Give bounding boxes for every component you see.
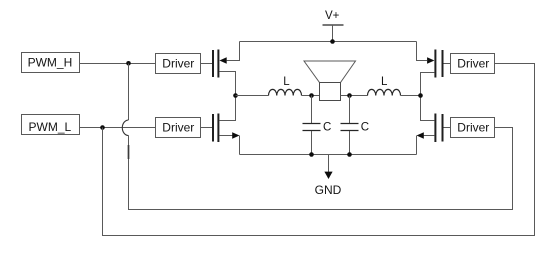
capacitor C1 plates	[303, 124, 321, 131]
wire Q2 source toward ground rail	[219, 135, 233, 137]
capacitor C1 bottom wire	[311, 131, 313, 155]
junction dot V+ rail	[330, 39, 335, 44]
wire L2 to right node	[401, 95, 421, 97]
junction dot speaker right terminal	[347, 93, 352, 98]
wire Q4 source down to ground rail	[416, 136, 418, 155]
capacitor C2 plates	[341, 124, 359, 131]
PWM_H input box	[22, 53, 80, 73]
inductor L1	[269, 89, 302, 95]
wire Q1 drain to left output node	[219, 72, 235, 96]
svg-text:Driver: Driver	[162, 120, 194, 134]
wire darker overlap segment on PWM_H feedback	[128, 145, 130, 159]
driver U4 box bottom-right	[451, 118, 495, 138]
V+ supply stub	[332, 25, 334, 42]
junction dot right output node	[418, 93, 423, 98]
transistor Q2 bottom-left: gate lead	[201, 127, 213, 129]
svg-text:PWM_L: PWM_L	[29, 120, 72, 134]
wire PWM_H output to driver U1	[80, 63, 156, 65]
speaker LS1 cone	[304, 61, 356, 83]
junction dot C1 at ground rail	[309, 152, 314, 157]
capacitor C2 bottom wire	[349, 131, 351, 155]
junction dot C2 at ground rail	[347, 152, 352, 157]
transistor Q3 gate bar	[442, 50, 444, 77]
capacitor C1 top wire	[311, 96, 313, 124]
svg-text:C: C	[323, 121, 331, 133]
capacitor C2 top wire	[349, 96, 351, 124]
transistor Q1 gate bar	[212, 50, 214, 77]
wire Q2 drain to left output node	[219, 96, 235, 121]
svg-text:Driver: Driver	[457, 56, 489, 70]
wire PWM_L output to driver U2	[80, 127, 156, 129]
wire Q4 drain to right output node	[421, 96, 435, 121]
svg-text:GND: GND	[315, 183, 342, 197]
svg-text:Driver: Driver	[162, 56, 194, 70]
ground stub	[328, 155, 330, 173]
wire PWM_L feedback loop around to driver U3	[103, 64, 535, 236]
wire hop over PWM_L line	[122, 120, 128, 136]
wire Q3 source to V+ rail	[417, 42, 428, 61]
svg-text:Driver: Driver	[457, 120, 489, 134]
junction dot speaker left terminal	[309, 93, 314, 98]
inductor L2	[368, 89, 401, 95]
transistor Q1 top-left: gate lead	[201, 63, 213, 65]
svg-text:L: L	[381, 76, 388, 88]
speaker LS1 magnet body	[320, 83, 341, 101]
ground arrow	[324, 172, 332, 179]
transistor Q4 channel bar	[434, 114, 436, 143]
wire speaker right terminal	[341, 95, 368, 97]
wire Q4 source toward ground rail	[424, 135, 435, 137]
junction dot PWM_L feedback node	[100, 125, 105, 130]
transistor Q1 source arrow	[219, 57, 226, 64]
V+ supply symbol bar	[323, 24, 344, 26]
wire ground bottom rail	[240, 154, 417, 156]
wire PWM_H feedback loop down to driver U4	[129, 64, 513, 210]
svg-text:L: L	[283, 76, 290, 88]
transistor Q3 channel bar	[434, 50, 436, 78]
svg-text:C: C	[361, 121, 369, 133]
PWM_L input box	[22, 115, 80, 135]
junction dot left output node	[233, 93, 238, 98]
transistor Q3 source arrow	[427, 57, 434, 64]
transistor Q2 gate bar	[212, 114, 214, 142]
transistor Q4 bottom-right: gate lead	[444, 127, 451, 129]
transistor Q2 source arrow	[232, 132, 239, 139]
svg-text:PWM_H: PWM_H	[28, 56, 73, 70]
driver U1 box top-left	[156, 54, 201, 74]
wire V+ top rail	[240, 41, 417, 43]
transistor Q4 gate bar	[442, 114, 444, 142]
wire left node to inductor L1	[236, 95, 269, 97]
transistor Q2 channel bar	[217, 114, 219, 143]
wire Q2 source down to ground rail	[239, 136, 241, 155]
wire Q1 source to V+ rail	[227, 42, 240, 61]
svg-text:V+: V+	[325, 10, 340, 22]
junction dot PWM_H feedback node	[126, 61, 131, 66]
transistor Q3 top-right: gate lead	[444, 63, 451, 65]
wire Q3 drain to right output node	[421, 73, 435, 96]
driver U3 box top-right	[451, 54, 495, 74]
driver U2 box bottom-left	[156, 118, 201, 138]
transistor Q1 channel bar	[217, 50, 219, 78]
transistor Q4 source arrow	[417, 132, 424, 139]
wire L1 to speaker left terminal	[302, 95, 320, 97]
